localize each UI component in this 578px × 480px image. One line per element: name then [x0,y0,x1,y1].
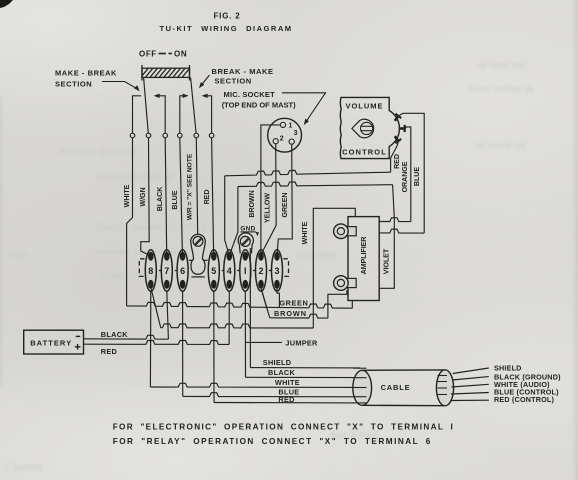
cable body [362,369,445,371]
wire YELLOW: pin 2 down, diagonal to terminal 2 top [262,144,277,254]
svg-text:SHIELD: SHIELD [263,358,292,367]
wire BLACK down to terminal 7 [165,138,167,254]
wire WHITE: amplifier top hook [313,208,355,328]
svg-text:GREEN: GREEN [279,298,308,307]
svg-text:FIG. 2: FIG. 2 [213,12,240,21]
wire stub to ORANGE (bump over violet) [379,218,411,222]
svg-text:7: 7 [164,266,169,276]
svg-text:GREEN: GREEN [281,193,289,218]
wire GND pad down to shield cable wire [249,248,251,368]
svg-text:I: I [244,266,247,276]
leader arrow BREAK-MAKE [201,75,210,86]
terminal 3 lug [272,250,283,292]
svg-text:BLUE: BLUE [413,167,421,186]
cable wire stubs inside left ellipse [353,367,367,369]
terminal strip left dashed bracket [139,259,144,277]
svg-text:AMPLIFIER: AMPLIFIER [359,236,368,275]
switch contact arm B2 with arrow (RED) [204,96,212,133]
switch slider bar (hatched) [141,65,190,81]
mic socket circle [268,118,302,152]
GND screw [240,236,250,246]
svg-text:ON: ON [174,50,187,59]
leader arrow MIC. SOCKET [282,93,326,123]
mic socket pin 1 [280,122,285,127]
svg-text:FOR "ELECTRONIC" OPERATION CON: FOR "ELECTRONIC" OPERATION CONNECT "X" T… [113,423,454,432]
switch contact circle 3 [163,133,168,138]
wire W/GN down to terminal 8 [141,138,151,256]
svg-text:2: 2 [280,136,284,143]
svg-text:(TOP END OF MAST): (TOP END OF MAST) [222,101,296,110]
wire battery RED to terminal 4 (bumps) [84,341,230,345]
wire terminal 7 to battery BLACK corner [167,291,169,339]
battery plus terminal [75,346,81,348]
svg-text:BLACK: BLACK [101,330,128,339]
wire terminal 5 down to red cable wire [213,291,215,403]
mic socket pin 3 [289,139,294,144]
cable right end ellipse [436,370,453,406]
terminal I lug [240,250,251,292]
svg-text:BLACK: BLACK [156,186,164,212]
terminal 2 lug [256,250,267,292]
terminal 4 lug [224,250,235,292]
svg-text:5: 5 [211,266,216,276]
mounting screw X [193,236,203,246]
wire battery BLACK to terminal 7 (bump over white cable wire) [84,335,169,339]
svg-text:FOR "RELAY" OPERATION CONNECT: FOR "RELAY" OPERATION CONNECT "X" TO TER… [113,437,432,446]
battery minus terminal [76,335,80,337]
scan corner mark [0,0,13,8]
leader arrow MAKE-BREAK [102,82,137,89]
svg-text:W/GN: W/GN [139,187,147,206]
wire BROWN: pin 1 to terminal 2 top [261,125,281,256]
svg-text:WHITE: WHITE [275,378,300,387]
wire BLUE down to terminal 6 [180,138,183,254]
terminal strip right dashed bracket [283,259,288,277]
svg-text:JUMPER: JUMPER [285,338,318,347]
wire ORANGE from middle lug [405,127,411,222]
svg-text:OFF: OFF [139,50,157,59]
wire BROWN bus: terminal 2 to amplifier jack J2 (bump over white) [261,289,270,318]
svg-text:1: 1 [289,123,293,130]
svg-text:RED (CONTROL): RED (CONTROL) [494,395,554,404]
svg-text:BROWN: BROWN [248,190,256,217]
svg-text:4: 4 [227,266,232,276]
svg-text:BLACK: BLACK [268,368,295,377]
wire VIOLET vertical down to amplifier bottom [379,185,394,289]
wire JUMPER [246,341,283,343]
svg-text:ORANGE: ORANGE [401,161,409,192]
wire terminal 8 down to white cable wire [149,291,151,387]
svg-text:TU-KIT WIRING DIAGRAM: TU-KIT WIRING DIAGRAM [159,24,292,33]
battery box [24,330,84,354]
svg-text:SECTION: SECTION [215,77,252,86]
svg-text:MIC. SOCKET: MIC. SOCKET [224,90,276,99]
svg-text:6: 6 [180,266,185,276]
amplifier input jack J1 [346,227,357,236]
switch contact circle 2 [146,133,151,138]
wire: white bus terminal 8 to amplifier (bumps over crossing wires) [151,289,161,328]
volume control box [340,97,399,158]
svg-text:MAKE - BREAK: MAKE - BREAK [55,69,117,78]
svg-text:CONTROL: CONTROL [342,148,387,157]
wire stub to BLUE (bump over violet) [379,229,424,233]
svg-text:2: 2 [258,266,263,276]
svg-text:BLUE: BLUE [171,190,179,209]
volume control lug 1 (top) [395,116,399,121]
wire terminal 4 to battery RED corner [228,291,230,345]
svg-text:VIOLET: VIOLET [382,248,391,274]
terminal strip tie dashes [159,270,162,272]
svg-text:3: 3 [294,130,298,137]
svg-text:BATTERY: BATTERY [30,338,72,347]
wire BLUE from top lug [400,113,425,233]
switch contact circle 5 [194,133,199,138]
wire GREEN bus: left riser to amplifier bottom (bumps over crossing wires) [127,302,353,308]
volume control lug 2 (middle) [399,127,405,130]
wire BLACK to cable [246,376,358,378]
svg-text:VOLUME: VOLUME [345,102,383,111]
switch moving contact slant B (from slider) [191,78,197,134]
terminal 6 lug [177,250,188,292]
svg-text:BROWN: BROWN [274,309,307,318]
wire WHITE to cable (bumps) [150,383,355,387]
svg-text:W/R = "X" SEE NOTE: W/R = "X" SEE NOTE [186,153,193,220]
wire terminal 1 down to black cable wire [244,291,246,378]
wire terminal 6 down to blue cable wire [182,291,184,397]
svg-text:YELLOW: YELLOW [263,193,271,223]
wire RED down to terminal 5 [212,138,214,254]
amplifier output jack J2 [346,278,357,287]
svg-text:WHITE: WHITE [123,184,131,207]
switch moving contact slant A (from slider) [144,78,149,134]
switch contact circle 4 [178,133,183,138]
wire: volume RED bus to terminal 4 (bumps over brown/yellow/green) [225,170,391,175]
terminal 7 lug [161,250,172,292]
svg-text:RED: RED [101,347,117,356]
switch contact arm B1 with arrow (BLUE) [180,96,186,133]
wire: terminal 3 jog down to green bus [277,289,279,308]
amplifier box [348,217,379,301]
svg-text:8: 8 [148,266,153,276]
svg-text:RED: RED [203,190,211,205]
wire VIOLET bus: terminal 4 to amplifier (bumps over brown/yellow/green) [238,182,393,187]
terminal 5 lug [208,250,219,292]
svg-text:SECTION: SECTION [55,80,92,89]
switch contact arm A1 (fixed, WHITE) [133,96,142,133]
svg-text:RED: RED [393,154,401,169]
mic socket pin 2 [273,139,278,144]
cable left end ellipse [353,370,372,405]
wire BLUE to cable (bump) [183,393,355,397]
svg-text:BREAK - MAKE: BREAK - MAKE [212,67,274,76]
cable fan-out wires (right) [453,368,489,374]
switch contact circle 6 [209,133,214,138]
svg-text:3: 3 [274,266,279,276]
wire SHIELD to cable [250,367,360,369]
wire RED to cable [214,402,355,404]
wire RED from bottom lug [391,143,399,173]
wire WHITE down + fork to green bus [127,138,133,306]
wire W/R="X" down to screw X [196,138,197,235]
wire GREEN: pin 3 down, jog to terminal 3 top [277,144,292,253]
terminal 8 lug [145,250,156,292]
svg-text:WHITE: WHITE [301,221,309,244]
svg-text:SHIELD: SHIELD [494,363,522,372]
potentiometer symbol [352,119,374,138]
switch contact arm A2 with arrow (BLACK) [156,96,165,133]
wire: terminal 2 diagonal to green bus [261,289,266,308]
switch contact circle 1 [130,133,135,138]
svg-text:CABLE: CABLE [381,383,411,392]
volume control lug 3 (bottom) [395,136,399,141]
